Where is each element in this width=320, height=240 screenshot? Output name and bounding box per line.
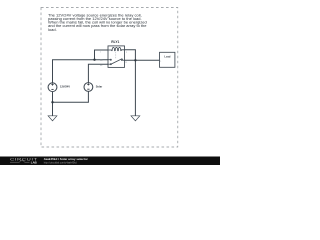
relay mechanical link (dashed) <box>115 52 117 59</box>
voltage source V1 12V/24V <box>48 83 57 92</box>
common pin stub <box>123 59 125 61</box>
load box <box>160 52 175 67</box>
svg-text:11: 11 <box>125 62 127 64</box>
svg-text:RLY1: RLY1 <box>111 40 119 44</box>
svg-text:Solar: Solar <box>96 85 103 89</box>
note text <box>48 12 147 31</box>
svg-text:LAB: LAB <box>31 161 37 165</box>
node junction common wire cross <box>134 59 136 61</box>
V2 plus mark <box>87 83 89 85</box>
relay pin numbers <box>100 52 127 67</box>
ground GND1 <box>48 116 57 121</box>
svg-text:1: 1 <box>160 61 161 63</box>
wire coil right pin to ground <box>125 50 136 116</box>
CircuitLab logo wordmark <box>10 157 38 164</box>
wire V1 top to relay upper contact <box>53 60 109 83</box>
relay switch contacts and arm <box>108 59 125 65</box>
voltage source V2 Solar <box>84 83 93 92</box>
wire V1 bottom to ground <box>52 92 54 116</box>
annotation dashed border box <box>41 8 178 148</box>
svg-text:http://circuitlab.com/c4aak45k: http://circuitlab.com/c4aak45kd <box>44 161 77 164</box>
wire bottom rail V1-V2 <box>53 91 89 102</box>
common pivot circle <box>121 59 122 60</box>
svg-text:and the current will now pass: and the current will now pass from the s… <box>48 23 147 28</box>
arm <box>111 59 122 64</box>
V2 minus mark <box>87 88 89 90</box>
V1 minus mark <box>51 88 53 90</box>
pin connection dot upper contact <box>107 59 108 60</box>
svg-text:2: 2 <box>126 52 127 54</box>
node junction bottom rail <box>51 101 53 103</box>
wire relay common to load <box>125 59 160 61</box>
upper contact stub <box>108 59 110 61</box>
svg-text:12V/24V: 12V/24V <box>60 85 70 89</box>
svg-text:load.: load. <box>48 27 57 32</box>
svg-text:4aak45kd / Solar array selecto: 4aak45kd / Solar array selector <box>44 157 89 161</box>
relay coil <box>108 47 125 50</box>
ground GND2 <box>131 116 140 121</box>
wire V2 top to relay lower contact <box>88 64 108 82</box>
footer bar <box>0 157 220 166</box>
V1 plus mark <box>51 84 53 86</box>
lower contact circle <box>110 64 111 65</box>
upper contact circle <box>110 59 111 60</box>
svg-text:Load: Load <box>164 55 170 58</box>
wire branch junction to coil left pin <box>95 50 109 60</box>
relay RLY1 box <box>108 46 125 68</box>
svg-text:1: 1 <box>100 52 101 54</box>
pin connection dot lower contact <box>107 64 108 65</box>
node junction branch <box>93 59 95 61</box>
lower contact stub <box>108 63 110 65</box>
